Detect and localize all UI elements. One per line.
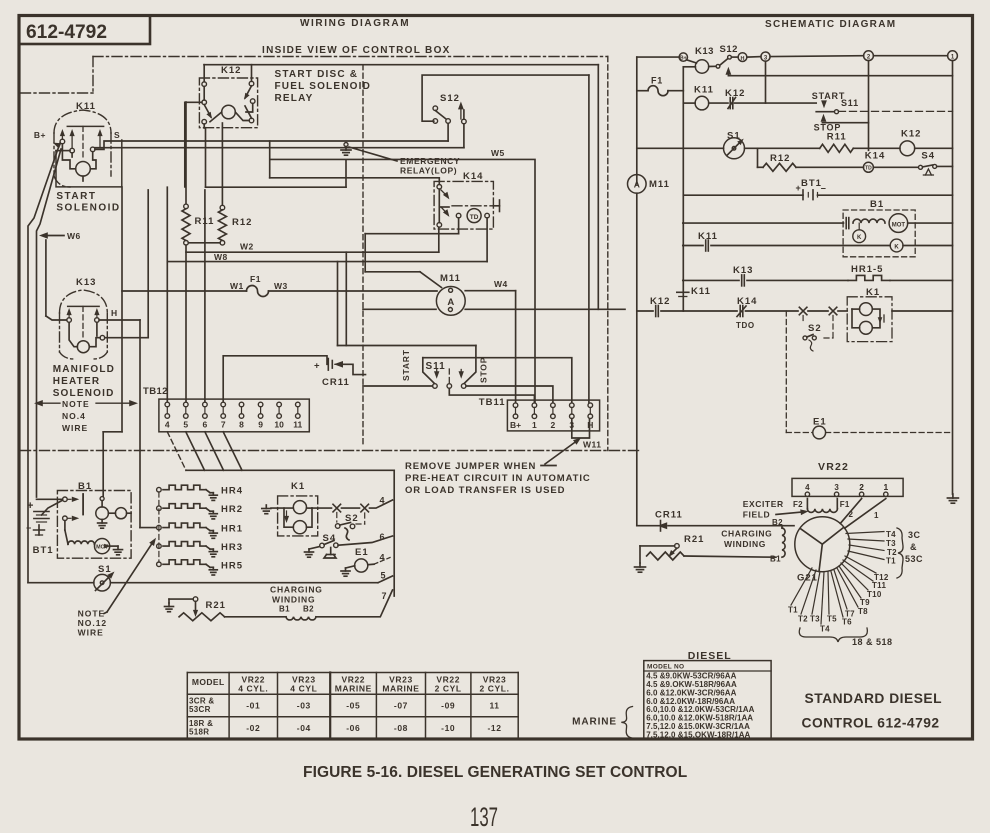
svg-text:11: 11 — [293, 420, 302, 430]
svg-text:WIRE: WIRE — [62, 423, 88, 433]
svg-text:MANIFOLD: MANIFOLD — [53, 364, 115, 375]
svg-text:PRE-HEAT CIRCUIT IN AUTOMAT: PRE-HEAT CIRCUIT IN AUTOMATIC — [405, 473, 591, 484]
svg-text:1: 1 — [884, 483, 889, 492]
svg-text:W6: W6 — [67, 231, 81, 241]
svg-text:A: A — [447, 297, 454, 308]
svg-text:−: − — [821, 184, 826, 194]
svg-text:-06: -06 — [346, 723, 360, 733]
svg-text:HR1-5: HR1-5 — [851, 264, 883, 275]
svg-text:CR11: CR11 — [655, 510, 683, 521]
svg-text:R12: R12 — [770, 153, 790, 164]
svg-text:R21: R21 — [206, 600, 226, 611]
svg-text:RELAY(LOP): RELAY(LOP) — [400, 166, 457, 176]
svg-text:STANDARD DIESEL: STANDARD DIESEL — [805, 691, 943, 706]
svg-text:F2: F2 — [793, 500, 803, 509]
svg-text:B1: B1 — [279, 605, 290, 614]
svg-text:-07: -07 — [394, 701, 408, 711]
svg-text:TD: TD — [470, 214, 479, 221]
svg-text:-03: -03 — [297, 701, 311, 711]
svg-text:S11: S11 — [426, 361, 446, 372]
svg-text:W4: W4 — [494, 279, 508, 289]
svg-text:INSIDE VIEW OF CONTROL BOX: INSIDE VIEW OF CONTROL BOX — [262, 45, 451, 56]
svg-text:+: + — [27, 500, 33, 512]
svg-text:7.5,12.0 &15.OKW-18R/1AA: 7.5,12.0 &15.OKW-18R/1AA — [646, 731, 750, 740]
svg-text:VR22: VR22 — [818, 461, 849, 473]
svg-text:4: 4 — [165, 420, 170, 430]
svg-text:T9: T9 — [860, 598, 870, 607]
svg-text:START: START — [56, 191, 96, 202]
svg-text:6: 6 — [379, 532, 384, 542]
svg-text:W3: W3 — [274, 281, 288, 291]
svg-text:MODEL: MODEL — [192, 677, 225, 687]
svg-text:T4: T4 — [820, 625, 830, 634]
svg-text:NO.12: NO.12 — [78, 618, 108, 628]
svg-text:3C: 3C — [908, 530, 921, 540]
svg-text:MARINE: MARINE — [335, 684, 372, 694]
svg-text:2 CYL: 2 CYL — [435, 684, 462, 694]
svg-text:B+: B+ — [510, 420, 521, 430]
svg-text:TB11: TB11 — [479, 397, 506, 408]
svg-text:F1: F1 — [250, 274, 261, 284]
svg-text:K14: K14 — [865, 151, 885, 162]
svg-text:2 CYL.: 2 CYL. — [480, 684, 510, 694]
svg-text:K12: K12 — [221, 65, 241, 76]
svg-text:T5: T5 — [827, 615, 837, 624]
svg-text:S: S — [114, 130, 120, 140]
svg-text:HR1: HR1 — [221, 524, 243, 535]
svg-text:MODEL NO: MODEL NO — [647, 664, 684, 671]
svg-text:S2: S2 — [808, 323, 822, 334]
svg-text:SOLENOID: SOLENOID — [53, 388, 115, 399]
svg-text:&: & — [910, 542, 917, 552]
svg-text:H: H — [111, 308, 118, 318]
svg-text:+: + — [314, 361, 320, 372]
svg-text:T3: T3 — [886, 539, 896, 548]
svg-text:WIRING DIAGRAM: WIRING DIAGRAM — [300, 18, 410, 29]
svg-text:1: 1 — [532, 420, 537, 430]
svg-text:K13: K13 — [733, 265, 753, 276]
svg-text:S2: S2 — [345, 513, 359, 524]
svg-text:F1: F1 — [651, 76, 663, 86]
svg-text:T6: T6 — [842, 618, 852, 627]
svg-text:M11: M11 — [440, 273, 461, 284]
svg-text:137: 137 — [470, 802, 498, 832]
svg-text:T1: T1 — [788, 606, 798, 615]
svg-text:MARINE: MARINE — [382, 684, 419, 694]
svg-text:B+: B+ — [34, 130, 46, 140]
svg-text:TDO: TDO — [736, 321, 755, 330]
svg-text:K: K — [894, 244, 899, 250]
svg-text:R12: R12 — [232, 217, 252, 228]
svg-text:R21: R21 — [684, 534, 704, 545]
svg-text:K11: K11 — [691, 286, 711, 297]
svg-text:10: 10 — [274, 420, 284, 430]
svg-text:53C: 53C — [905, 554, 923, 564]
svg-text:4 CYL.: 4 CYL. — [238, 684, 268, 694]
svg-text:8: 8 — [239, 420, 244, 430]
svg-text:+: + — [796, 183, 801, 193]
svg-text:-08: -08 — [394, 723, 408, 733]
svg-text:-12: -12 — [488, 723, 502, 733]
svg-text:NOTE: NOTE — [78, 609, 106, 619]
svg-text:W2: W2 — [240, 242, 254, 252]
svg-text:W11: W11 — [583, 440, 602, 450]
svg-text:518R: 518R — [189, 728, 209, 737]
svg-text:5: 5 — [183, 420, 188, 430]
svg-text:FIELD: FIELD — [743, 510, 771, 520]
svg-text:B1: B1 — [770, 555, 781, 564]
svg-text:K13: K13 — [76, 277, 96, 288]
svg-text:K1: K1 — [291, 481, 305, 492]
svg-text:FIGURE 5-16. DIESEL GENERATING: FIGURE 5-16. DIESEL GENERATING SET CONTR… — [303, 764, 687, 781]
svg-text:H: H — [741, 56, 745, 62]
svg-text:TD: TD — [865, 166, 872, 172]
svg-text:HR2: HR2 — [221, 504, 243, 515]
svg-text:HR5: HR5 — [221, 560, 243, 571]
svg-text:TB12: TB12 — [143, 386, 168, 397]
svg-text:4: 4 — [379, 553, 384, 563]
svg-text:−: − — [26, 523, 31, 533]
svg-text:REMOVE JUMPER WHEN: REMOVE JUMPER WHEN — [405, 461, 536, 472]
svg-text:53CR: 53CR — [189, 705, 211, 714]
svg-text:E1: E1 — [355, 547, 369, 558]
svg-text:SCHEMATIC DIAGRAM: SCHEMATIC DIAGRAM — [765, 19, 896, 30]
svg-text:5: 5 — [380, 571, 385, 581]
svg-text:-10: -10 — [441, 723, 455, 733]
svg-text:W1: W1 — [230, 281, 244, 291]
svg-text:EMERGENCY: EMERGENCY — [400, 156, 460, 166]
svg-text:3: 3 — [834, 483, 839, 492]
svg-text:WIRE: WIRE — [78, 628, 104, 638]
svg-text:K13: K13 — [695, 46, 714, 57]
svg-text:-01: -01 — [246, 701, 260, 711]
svg-text:B+: B+ — [680, 56, 687, 62]
svg-text:S1: S1 — [98, 564, 112, 575]
svg-text:4: 4 — [379, 496, 384, 506]
svg-text:-04: -04 — [297, 723, 311, 733]
svg-text:1: 1 — [874, 511, 879, 520]
svg-text:R11: R11 — [827, 132, 847, 143]
svg-text:-02: -02 — [246, 723, 260, 733]
svg-text:612-4792: 612-4792 — [26, 21, 107, 43]
svg-text:S4: S4 — [921, 151, 935, 162]
svg-text:18 & 518: 18 & 518 — [852, 637, 893, 647]
svg-text:11: 11 — [489, 701, 499, 711]
svg-text:T8: T8 — [858, 607, 868, 616]
svg-text:K12: K12 — [650, 296, 670, 307]
svg-text:START: START — [401, 349, 411, 381]
svg-text:RELAY: RELAY — [275, 93, 314, 104]
svg-text:K11: K11 — [694, 85, 714, 96]
svg-text:OR LOAD TRANSFER IS USED: OR LOAD TRANSFER IS USED — [405, 485, 565, 496]
svg-text:WINDING: WINDING — [724, 539, 766, 549]
svg-text:CHARGING: CHARGING — [270, 585, 323, 595]
svg-text:NO.4: NO.4 — [62, 411, 86, 421]
svg-text:CONTROL 612-4792: CONTROL 612-4792 — [802, 716, 940, 731]
svg-text:K14: K14 — [463, 171, 483, 182]
svg-text:7: 7 — [221, 420, 226, 430]
svg-text:S11: S11 — [841, 98, 859, 108]
svg-text:B2: B2 — [303, 605, 314, 614]
svg-text:T2: T2 — [798, 615, 808, 624]
svg-text:T11: T11 — [872, 581, 886, 590]
svg-text:HEATER: HEATER — [53, 376, 101, 387]
svg-text:HR4: HR4 — [221, 486, 243, 497]
svg-text:NOTE: NOTE — [62, 399, 90, 409]
svg-text:T4: T4 — [886, 530, 896, 539]
svg-text:2: 2 — [859, 483, 864, 492]
svg-text:4: 4 — [805, 483, 810, 492]
svg-text:S12: S12 — [720, 44, 738, 55]
svg-text:6: 6 — [203, 420, 208, 430]
svg-text:9: 9 — [258, 420, 263, 430]
svg-text:MOT: MOT — [892, 222, 906, 228]
svg-text:K: K — [857, 235, 862, 241]
svg-text:SOLENOID: SOLENOID — [56, 203, 120, 214]
svg-text:CHARGING: CHARGING — [721, 529, 772, 539]
svg-text:S12: S12 — [440, 93, 460, 104]
svg-text:BT1: BT1 — [33, 545, 54, 556]
svg-text:2: 2 — [551, 420, 556, 430]
svg-text:START DISC &: START DISC & — [275, 69, 359, 80]
svg-text:T1: T1 — [886, 557, 896, 566]
svg-text:CR11: CR11 — [322, 377, 350, 388]
svg-text:F1: F1 — [840, 500, 850, 509]
svg-text:B1: B1 — [870, 199, 884, 210]
svg-text:-05: -05 — [346, 701, 360, 711]
svg-text:MARINE: MARINE — [572, 717, 617, 728]
svg-text:HR3: HR3 — [221, 542, 243, 553]
svg-text:4 CYL: 4 CYL — [290, 684, 317, 694]
svg-text:STOP: STOP — [479, 357, 489, 383]
svg-text:7: 7 — [381, 591, 386, 601]
svg-text:FUEL SOLENOID: FUEL SOLENOID — [275, 81, 372, 92]
svg-text:EXCITER: EXCITER — [743, 499, 784, 509]
svg-text:W8: W8 — [214, 252, 228, 262]
svg-text:A: A — [634, 179, 640, 189]
svg-text:WINDING: WINDING — [272, 595, 315, 605]
svg-text:K12: K12 — [901, 129, 921, 140]
svg-text:BT1: BT1 — [801, 178, 822, 189]
svg-text:-09: -09 — [441, 701, 455, 711]
svg-text:M11: M11 — [649, 179, 670, 190]
svg-text:T3: T3 — [810, 615, 820, 624]
svg-text:W5: W5 — [491, 148, 505, 158]
